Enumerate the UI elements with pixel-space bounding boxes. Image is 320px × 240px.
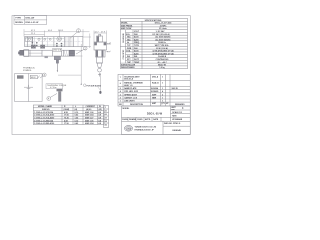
svg-text:WEIGHT/MASS: WEIGHT/MASS [121, 66, 135, 69]
svg-text:DSG-L-01-W: DSG-L-01-W [147, 111, 163, 115]
balloon 4 bolt [47, 94, 57, 101]
graphic symbol box [15, 74, 42, 102]
svg-text:1: 1 [120, 101, 121, 103]
front view body [24, 50, 75, 57]
svg-text:5: 5 [120, 88, 121, 90]
svg-text:APPD: APPD [145, 118, 151, 121]
svg-text:21 MPa: 21 MPa [160, 25, 167, 27]
svg-text:DWG NO. FPMC-S: DWG NO. FPMC-S [164, 123, 181, 125]
svg-text:1: 1 [162, 97, 163, 99]
svg-text:-04: -04 [104, 120, 107, 123]
svg-text:17.56: 17.56 [64, 123, 69, 125]
svg-text:0.7 N-m: 0.7 N-m [50, 87, 57, 89]
svg-text:SCM435: SCM435 [151, 90, 158, 93]
svg-text:AC 200V 50/60Hz: AC 200V 50/60Hz [155, 38, 170, 41]
svg-text:DSG-01-A: DSG-01-A [124, 78, 133, 81]
company name [135, 127, 157, 132]
svg-text:4-M5: 4-M5 [107, 44, 111, 46]
svg-text:163.5: 163.5 [58, 30, 64, 32]
svg-text:DSG-L-01-3C*-D24: DSG-L-01-3C*-D24 [155, 22, 172, 25]
graphic symbol title [23, 66, 36, 71]
svg-text:DSGN: DSGN [122, 119, 128, 121]
svg-text:DSG W.B: DSG W.B [53, 50, 62, 52]
svg-text:70.25: 70.25 [64, 118, 69, 120]
svg-text:SWP: SWP [152, 94, 157, 96]
svg-text:WET TYPE SOL.: WET TYPE SOL. [155, 45, 170, 47]
svg-text:1: 1 [162, 76, 163, 78]
symbol center tee [24, 85, 33, 89]
spec group labels vertical [123, 33, 132, 64]
svg-text:(OHM): (OHM) [64, 109, 70, 111]
svg-text:CHKD: CHKD [137, 119, 143, 121]
svg-text:SPECIFICATIONS: SPECIFICATIONS [145, 19, 162, 22]
front view dim line right [58, 44, 83, 85]
svg-text:3: 3 [120, 94, 121, 96]
svg-text:TYPE: TYPE [15, 18, 21, 20]
svg-text:4.8: 4.8 [98, 119, 101, 122]
balloon 2 front view [76, 47, 87, 55]
svg-text:(H): (H) [75, 109, 78, 111]
svg-text:SOLENOID: SOLENOID [123, 33, 125, 43]
model table top-left [14, 16, 47, 25]
title block [122, 106, 191, 135]
svg-text:-01: -01 [104, 111, 107, 113]
top view solenoid hatch [66, 37, 73, 47]
svg-text:1: 1 [162, 88, 163, 90]
svg-text:MAX FLOW: MAX FLOW [121, 27, 132, 30]
svg-text:-05: -05 [104, 125, 107, 127]
front view solenoid bumps [31, 45, 44, 48]
svg-text:MODEL / NAME: MODEL / NAME [38, 105, 53, 108]
svg-text:1: 1 [105, 107, 106, 109]
svg-text:21 L/min: 21 L/min [159, 28, 168, 30]
svg-text:0.42: 0.42 [75, 114, 79, 117]
svg-text:29 W (1.06 A): 29 W (1.06 A) [156, 47, 168, 50]
svg-text:MAX 0.27: MAX 0.27 [85, 117, 93, 120]
svg-text:SUB NO.: SUB NO. [42, 109, 50, 111]
svg-text:0306049: 0306049 [172, 129, 181, 132]
svg-text:4. DSG-L-01-2B2-D24: 4. DSG-L-01-2B2-D24 [34, 119, 54, 122]
svg-text:DC 24 V (21.6-26.4): DC 24 V (21.6-26.4) [153, 33, 170, 36]
svg-text:STR. HEX. SCR: STR. HEX. SCR [124, 91, 138, 93]
torque note box [46, 84, 67, 89]
svg-text:SCALE 1/2: SCALE 1/2 [172, 111, 182, 114]
svg-text:1. DC 24V: 1. DC 24V [156, 30, 165, 33]
svg-text:AC 100V 50/60Hz: AC 100V 50/60Hz [155, 36, 170, 39]
revision stack [104, 106, 109, 128]
front view left connector block [18, 50, 24, 55]
balloon 3 symbol box [40, 73, 46, 78]
svg-text:FOR AIR BLEED: FOR AIR BLEED [87, 84, 102, 87]
svg-text:SUS W: SUS W [172, 88, 178, 90]
svg-text:0.42: 0.42 [75, 122, 79, 125]
frame border [12, 16, 190, 135]
top view port circles [28, 37, 61, 42]
svg-text:COIL SPEC: COIL SPEC [123, 49, 125, 59]
svg-text:-20 ~ +60 C: -20 ~ +60 C [157, 62, 168, 64]
svg-text:(W): (W) [99, 109, 102, 111]
svg-text:-03: -03 [104, 118, 107, 120]
svg-text:0.10: 0.10 [75, 120, 79, 122]
side view leaders [105, 43, 111, 53]
svg-text:CLASS B: CLASS B [158, 55, 167, 58]
svg-text:N/W /: N/W / [172, 116, 177, 118]
svg-text:DSG-L-01-W: DSG-L-01-W [26, 22, 40, 24]
svg-text:1. DSG-L-01-3C2-D24: 1. DSG-L-01-3C2-D24 [34, 111, 54, 114]
air bleed callout [83, 73, 101, 94]
svg-text:3. DSG-L-01-3C4-A200: 3. DSG-L-01-3C4-A200 [34, 117, 54, 120]
svg-text:SPRING ASSY: SPRING ASSY [124, 93, 138, 96]
svg-text:WICK: WICK [31, 77, 37, 79]
top view interior lines [25, 38, 65, 45]
svg-text:MODEL: MODEL [121, 23, 129, 25]
top view port recess [26, 37, 33, 41]
front view right cap [69, 50, 74, 56]
svg-text:MODEL: MODEL [15, 22, 24, 24]
balloon 1 top view [70, 29, 80, 39]
svg-text:DSG-LW: DSG-LW [26, 18, 36, 20]
svg-text:A100: A100 [134, 36, 139, 39]
company logo [124, 126, 132, 132]
svg-text:MAX 0.54: MAX 0.54 [85, 114, 94, 117]
svg-text:DRAWN: DRAWN [129, 118, 137, 121]
svg-text:5. DSG-L-01-2B2-A100: 5. DSG-L-01-2B2-A100 [34, 122, 54, 125]
svg-text:GASKET 1-1/8: GASKET 1-1/8 [124, 96, 137, 99]
svg-text:32 VA (HOLDING 27 VA): 32 VA (HOLDING 27 VA) [152, 52, 174, 55]
svg-text:1: 1 [162, 82, 163, 84]
svg-text:4.58: 4.58 [64, 111, 68, 114]
svg-text:CONTINUOUS: CONTINUOUS [156, 59, 169, 61]
svg-text:MAX 1.06: MAX 1.06 [85, 119, 93, 122]
bolt detail [57, 89, 63, 102]
svg-text:0.10: 0.10 [75, 112, 79, 114]
svg-text:4.8: 4.8 [98, 114, 101, 117]
svg-text:NBR: NBR [152, 97, 157, 99]
svg-text:INS.: INS. [134, 56, 138, 58]
svg-text:4.8: 4.8 [98, 122, 101, 125]
svg-text:W: W [99, 106, 101, 108]
svg-text:VOLT: VOLT [134, 31, 140, 33]
svg-text:PWR: PWR [127, 48, 132, 50]
top view body [24, 37, 84, 47]
svg-text:A200: A200 [134, 52, 139, 55]
svg-text:MAX 0.54: MAX 0.54 [85, 122, 94, 125]
parts list [118, 74, 190, 106]
svg-text:YKN: YKN [126, 128, 131, 130]
svg-text:MAX PRESS.: MAX PRESS. [121, 24, 133, 27]
svg-text:17.56: 17.56 [64, 115, 69, 117]
svg-text:SYMBOL: SYMBOL [23, 70, 33, 72]
svg-text:4.8: 4.8 [98, 117, 101, 120]
svg-text:FREQ: FREQ [134, 42, 140, 44]
svg-text:CURRENT: CURRENT [86, 106, 96, 108]
svg-text:32 VA (HOLDING 27 VA): 32 VA (HOLDING 27 VA) [152, 50, 174, 53]
svg-text:2. DSG-L-01-3C4-A100: 2. DSG-L-01-3C4-A100 [34, 114, 54, 117]
side view dims [94, 31, 107, 43]
side view stack [94, 34, 107, 76]
svg-text:KAA-01: KAA-01 [152, 81, 159, 84]
svg-text:DUTY: DUTY [134, 59, 140, 61]
svg-text:7: 7 [120, 77, 121, 79]
svg-text:HYDRAULICS DIV. JP: HYDRAULICS DIV. JP [135, 128, 155, 131]
svg-text:4.58: 4.58 [64, 119, 68, 122]
coil table bottom-left [33, 105, 104, 125]
svg-text:YUKEN KOGYO CO LTD: YUKEN KOGYO CO LTD [135, 127, 157, 129]
svg-text:1: 1 [162, 101, 163, 103]
spec table [120, 18, 187, 68]
svg-text:2: 2 [120, 97, 121, 99]
symbol valve squares [17, 75, 40, 79]
svg-text:MAX 1.06: MAX 1.06 [85, 111, 93, 114]
svg-text:TEMP: TEMP [134, 62, 140, 64]
svg-text:2: 2 [162, 94, 163, 96]
svg-text:Hz: Hz [127, 42, 129, 44]
top view dimensions [24, 29, 91, 48]
svg-text:SUS304: SUS304 [151, 87, 159, 90]
svg-text:6: 6 [120, 83, 121, 85]
svg-text:A100: A100 [134, 50, 139, 53]
svg-text:4.8: 4.8 [98, 111, 101, 114]
svg-text:DSG-A: DSG-A [152, 75, 159, 78]
svg-text:LINE UNITS: LINE UNITS [124, 101, 135, 103]
svg-text:mm: mm [171, 109, 175, 111]
svg-text:W.TANABE: W.TANABE [172, 118, 183, 121]
nameplate on body [53, 49, 62, 52]
svg-text:1.0 kg: 1.0 kg [159, 67, 165, 69]
svg-text:MODEL: MODEL [123, 108, 131, 110]
svg-text:NAME PLATE: NAME PLATE [124, 87, 137, 90]
svg-text:A200: A200 [134, 38, 139, 41]
svg-text:1.65: 1.65 [75, 118, 79, 120]
front view lower stem [54, 56, 60, 72]
svg-text:ASSY -01: ASSY -01 [124, 84, 132, 87]
svg-text:(A) 60: (A) 60 [86, 108, 91, 111]
svg-text:50/60 Hz: 50/60 Hz [158, 42, 166, 44]
svg-text:DATE: DATE [153, 118, 159, 121]
svg-text:TYPE: TYPE [134, 45, 140, 47]
svg-text:-02: -02 [104, 114, 107, 116]
